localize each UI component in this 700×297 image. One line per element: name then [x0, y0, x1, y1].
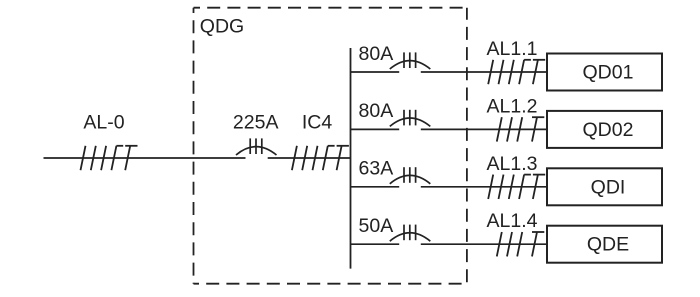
svg-text:QDG: QDG [200, 16, 244, 38]
svg-text:QDE: QDE [587, 234, 629, 256]
cable marks AL1.1: 5 conductor hatches (3 phase + N + PE) [488, 60, 545, 84]
svg-text:AL1.3: AL1.3 [487, 153, 538, 175]
wire: branch AL1.3 from busbar to 63A breaker [351, 186, 400, 188]
enclosure QDG: dashed boundary of distribution board [194, 8, 467, 284]
svg-text:AL1.4: AL1.4 [487, 210, 538, 232]
cable marks AL1.2: 4 conductor hatches (3 phase + PE) [497, 117, 545, 141]
node: vertical distribution busbar inside QDG [350, 48, 352, 269]
svg-text:80A: 80A [359, 43, 394, 65]
wire: branch AL1.2 from busbar to 80A breaker [351, 128, 400, 130]
svg-text:AL1.2: AL1.2 [487, 95, 538, 117]
svg-text:80A: 80A [359, 100, 394, 122]
svg-text:QDI: QDI [591, 176, 626, 198]
circuit breaker 63A (QDI feed): arc with 3 tick marks over line gap [390, 167, 431, 184]
wire: branch AL1.2 from breaker to load box QD02 [421, 128, 547, 130]
wire: branch AL1.1 from busbar to 80A breaker [351, 71, 400, 73]
circuit breaker 50A (QDE feed): arc with 3 tick marks over line gap [390, 225, 431, 242]
cable marks IC4: 5 conductor hatches (3 phase + N + PE) [292, 146, 349, 170]
svg-text:50A: 50A [359, 215, 394, 237]
wire: branch AL1.1 from breaker to load box QD01 [421, 71, 547, 73]
svg-text:AL1.1: AL1.1 [487, 38, 538, 60]
circuit breaker 80A (QD02 feed): arc with 3 tick marks over line gap [390, 110, 431, 127]
load box QD01 [547, 54, 662, 91]
svg-text:QD01: QD01 [583, 62, 634, 84]
circuit breaker 225A main: arc with 3 tick marks over line gap [236, 138, 277, 155]
cable marks AL1.4: 4 conductor hatches (3 phase + PE) [497, 232, 545, 256]
cable marks AL-0: 5 conductor hatches (3 phase + N + PE) [81, 146, 138, 170]
wire: from 225A breaker to busbar, carries IC4 cable marks [268, 157, 351, 159]
svg-text:63A: 63A [359, 158, 394, 180]
wire: branch AL1.4 from busbar to 50A breaker [351, 243, 400, 245]
svg-text:225A: 225A [233, 112, 279, 134]
wire: branch AL1.4 from breaker to load box QDE [421, 243, 547, 245]
load box QDE [547, 226, 662, 263]
load box QD02 [547, 111, 662, 148]
wire: branch AL1.3 from breaker to load box QDI [421, 186, 547, 188]
svg-text:IC4: IC4 [302, 112, 333, 134]
svg-text:AL-0: AL-0 [83, 112, 124, 134]
svg-text:QD02: QD02 [583, 119, 634, 141]
cable marks AL1.3: 5 conductor hatches (3 phase + N + PE) [488, 175, 545, 199]
wire: incoming feeder AL-0 line, left segment [44, 157, 246, 159]
circuit breaker 80A (QD01 feed): arc with 3 tick marks over line gap [390, 52, 431, 69]
load box QDI [547, 168, 662, 205]
